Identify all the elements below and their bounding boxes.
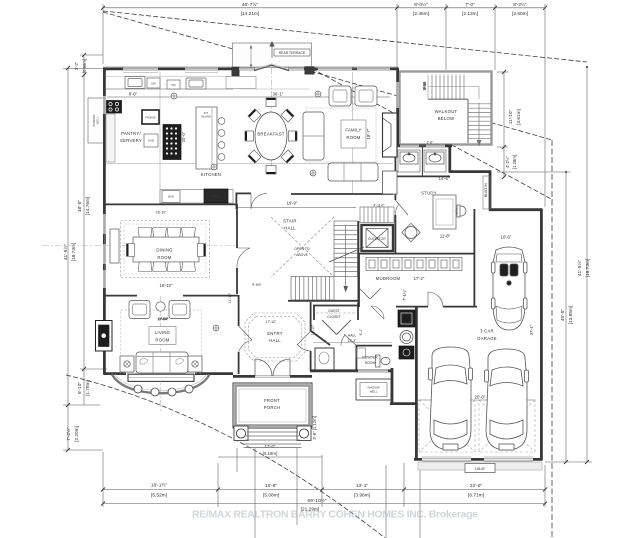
- dining chairs: [127, 228, 206, 272]
- LAYER: gray slabs: [88, 41, 542, 470]
- svg-text:KITCHEN: KITCHEN: [201, 172, 221, 177]
- svg-text:[3.98m]: [3.98m]: [354, 493, 370, 499]
- stair break line: [329, 247, 364, 262]
- svg-text:4'-11½": 4'-11½": [373, 204, 385, 208]
- svg-text:18'-10": 18'-10": [156, 211, 167, 215]
- svg-text:PANTRY/: PANTRY/: [121, 131, 141, 136]
- property line vertical right: [551, 140, 553, 538]
- svg-text:[3.61m]: [3.61m]: [516, 109, 522, 125]
- living side tables: [120, 356, 134, 372]
- study desk: [433, 195, 456, 229]
- sink 2: [186, 78, 206, 89]
- LAYER: dashed diagonals: [66, 11, 587, 538]
- svg-text:WALKOUT: WALKOUT: [435, 109, 458, 114]
- living armchair 2: [169, 301, 190, 319]
- svg-text:69'-10½": 69'-10½": [308, 497, 327, 504]
- svg-text:13'-1": 13'-1": [356, 483, 369, 489]
- guest closet walls: [313, 305, 359, 307]
- bath partition: [421, 146, 423, 176]
- kitchen south wall: [104, 203, 236, 205]
- mudroom double doors: [359, 288, 381, 299]
- svg-text:3 CAR: 3 CAR: [480, 329, 494, 334]
- svg-text:ROOM: ROOM: [155, 338, 169, 343]
- svg-text:8'-0": 8'-0": [129, 92, 138, 97]
- stair arrow: [345, 226, 347, 290]
- svg-text:[5.52m]: [5.52m]: [151, 493, 167, 499]
- guest closet doors: [322, 320, 351, 335]
- rear terrace slab: [233, 43, 312, 68]
- svg-text:WELL: WELL: [370, 390, 378, 394]
- living-entry wall upper: [238, 295, 240, 326]
- svg-text:STUDY: STUDY: [421, 191, 437, 196]
- svg-text:7'-1½": 7'-1½": [402, 289, 407, 301]
- right witness horizontals: [497, 171, 570, 173]
- exterior top wall: [103, 67, 255, 70]
- svg-text:[1.78m]: [1.78m]: [85, 380, 91, 396]
- svg-text:18'-7": 18'-7": [366, 128, 371, 139]
- dining tray ceiling dashed: [121, 221, 210, 278]
- kitchen top counter: [106, 88, 233, 90]
- left witness horizontals: [63, 68, 103, 70]
- svg-text:ENTRY: ENTRY: [267, 331, 283, 336]
- dining centerline: [42, 245, 236, 247]
- laundry appliances: [398, 310, 415, 327]
- svg-text:10'-6": 10'-6": [501, 235, 512, 240]
- svg-text:11'-8": 11'-8": [440, 234, 451, 239]
- svg-text:BUILT-IN: BUILT-IN: [484, 183, 488, 197]
- kitchen fridge 2: [204, 189, 228, 203]
- study chair: [456, 206, 466, 216]
- laundry south wall: [390, 402, 417, 405]
- dining east wall upper: [236, 204, 238, 248]
- angular plane line mid: [103, 12, 552, 140]
- kitchen bottom counter: [160, 190, 233, 204]
- hall dim line: [313, 342, 392, 344]
- notch vertical 1: [448, 145, 451, 173]
- elevator shaft walls: [362, 225, 394, 251]
- svg-text:FRONT: FRONT: [264, 398, 280, 403]
- terrace up arrow: [271, 45, 273, 58]
- svg-text:46'-7½": 46'-7½": [242, 1, 259, 8]
- svg-text:11'-10": 11'-10": [228, 292, 232, 303]
- svg-text:ELEVATOR: ELEVATOR: [368, 237, 386, 241]
- living-entry wall lower: [238, 352, 240, 374]
- bay window seat: [128, 374, 194, 381]
- dw 2: [167, 80, 180, 89]
- entry east wall upper: [310, 302, 312, 331]
- svg-text:4'-2½": 4'-2½": [505, 156, 510, 168]
- svg-text:8'-2½": 8'-2½": [513, 1, 527, 8]
- interior witness lines: [107, 45, 393, 204]
- svg-text:3'-8" [1.12m]: 3'-8" [1.12m]: [312, 416, 317, 439]
- porch columns: [234, 426, 311, 441]
- svg-text:FRIDGE: FRIDGE: [145, 116, 156, 120]
- breakfast bay angled wall: [254, 65, 289, 71]
- svg-text:BELOW: BELOW: [438, 116, 455, 121]
- left dim line x=84: [83, 55, 85, 405]
- electrical symbols: [171, 91, 321, 331]
- garage west wall upper: [473, 209, 475, 307]
- living sofa: [136, 352, 188, 373]
- entry north wall: [288, 300, 359, 302]
- svg-text:22'-0": 22'-0": [470, 483, 483, 489]
- front porch slab: [233, 383, 312, 428]
- svg-text:[1.28m]: [1.28m]: [512, 155, 517, 169]
- window well labels: [360, 383, 387, 397]
- angular plane line shallow: [103, 11, 587, 62]
- entry south wall: [233, 375, 312, 378]
- svg-text:7'-2½": 7'-2½": [65, 427, 72, 441]
- rear terrace label: [274, 49, 310, 56]
- right dim line x=566: [565, 172, 567, 462]
- svg-text:POWDER: POWDER: [362, 356, 378, 360]
- svg-text:2'-6": 2'-6": [427, 141, 435, 145]
- svg-text:9'-5½": 9'-5½": [252, 283, 262, 287]
- svg-text:17'-0": 17'-0": [265, 444, 276, 449]
- sports car: [492, 247, 528, 330]
- study north wall: [449, 170, 491, 173]
- svg-text:11'-10": 11'-10": [311, 324, 315, 335]
- svg-text:17'-10": 17'-10": [266, 320, 277, 324]
- front door leaves: [237, 193, 443, 376]
- mudroom lockers: [366, 258, 462, 271]
- living armchair 1: [129, 301, 150, 319]
- LAYER: walls: [103, 67, 542, 462]
- svg-text:HALL: HALL: [284, 226, 296, 231]
- svg-text:WELL: WELL: [96, 116, 100, 124]
- svg-text:RE/MAX REALTRON BARRY COHEN HO: RE/MAX REALTRON BARRY COHEN HOMES INC. B…: [192, 509, 478, 521]
- family side table: [352, 88, 355, 104]
- svg-text:DINING: DINING: [156, 248, 172, 253]
- living fireplace: [96, 321, 113, 352]
- breakfast chairs: [245, 98, 297, 174]
- garage apron: [418, 462, 542, 470]
- walkout interior walls gray: [428, 99, 468, 143]
- svg-text:ROOM: ROOM: [346, 135, 360, 140]
- left dim line x=68: [67, 68, 69, 450]
- living round table: [156, 302, 165, 311]
- mudroom west wall: [358, 253, 360, 307]
- svg-text:AUD: AUD: [148, 139, 154, 143]
- bottom dim line 1: [103, 489, 545, 491]
- study west wall upper: [394, 146, 396, 200]
- svg-text:LIVING: LIVING: [155, 330, 170, 335]
- powder north wall: [356, 345, 392, 347]
- svg-text:CLOSET: CLOSET: [327, 315, 341, 319]
- svg-text:ABOVE: ABOVE: [296, 253, 308, 257]
- svg-text:BVD: BVD: [168, 195, 174, 199]
- svg-text:FRIDGE: FRIDGE: [210, 195, 221, 199]
- stove: [107, 101, 122, 114]
- svg-text:36'-1": 36'-1": [273, 92, 284, 97]
- svg-text:158.6F: 158.6F: [475, 467, 486, 471]
- family room label: [341, 120, 366, 148]
- bath vanity 1: [398, 150, 420, 172]
- porch inner line: [239, 389, 306, 422]
- svg-text:SERVERY: SERVERY: [120, 138, 142, 143]
- svg-text:[2.13m]: [2.13m]: [462, 11, 478, 17]
- family room rug: [306, 108, 376, 162]
- svg-text:DW: DW: [151, 82, 156, 86]
- svg-text:14'-6": 14'-6": [439, 176, 450, 181]
- garage north wall: [489, 208, 542, 211]
- breakfast table: [255, 112, 287, 160]
- bath top wall below walkout: [396, 144, 452, 147]
- angular plane line steep: [287, 55, 553, 200]
- svg-text:17'-2": 17'-2": [414, 276, 425, 281]
- window center lines: [104, 69, 533, 462]
- door arc to mudroom hall: [371, 306, 384, 319]
- svg-text:MUDROOM: MUDROOM: [376, 276, 401, 281]
- family room east wall: [396, 68, 399, 147]
- top dimension line: [103, 7, 545, 9]
- hall closet walls: [315, 348, 334, 370]
- top wall hairline: [103, 66, 398, 68]
- svg-text:5'-10": 5'-10": [77, 382, 83, 395]
- dining east wall lower: [236, 268, 238, 294]
- cooktop counter right: [226, 77, 256, 89]
- dining table: [133, 237, 199, 262]
- svg-text:[0.96m]: [0.96m]: [82, 59, 87, 73]
- svg-text:BREAKFAST: BREAKFAST: [257, 132, 284, 137]
- svg-text:41'-5½": 41'-5½": [62, 244, 69, 261]
- svg-text:ROOM: ROOM: [365, 361, 376, 365]
- living bay base curve: [112, 375, 210, 394]
- svg-text:OPEN TO: OPEN TO: [294, 247, 309, 251]
- svg-text:[2.45m]: [2.45m]: [413, 11, 429, 17]
- svg-text:DW: DW: [171, 83, 176, 87]
- study round table: [402, 223, 420, 241]
- walkout stair arrow: [477, 140, 482, 147]
- svg-text:GUEST: GUEST: [328, 309, 340, 313]
- window well east wall: [391, 368, 394, 405]
- entry east wall lower: [310, 351, 312, 371]
- hall diagonal walls: [311, 331, 330, 345]
- open to above X: [271, 217, 334, 277]
- living room label: [149, 327, 176, 345]
- family fireplace: [383, 113, 398, 157]
- porch steps: [244, 432, 302, 448]
- entry octagon dashed: [245, 313, 305, 361]
- svg-text:37'-1": 37'-1": [529, 324, 534, 335]
- dining-living wall left: [104, 295, 137, 297]
- svg-text:20'-0": 20'-0": [475, 395, 486, 400]
- powder sink: [357, 348, 366, 358]
- svg-text:7'-0": 7'-0": [465, 2, 475, 8]
- svg-text:HALL: HALL: [348, 334, 357, 338]
- svg-text:20'-0": 20'-0": [181, 131, 186, 142]
- stair hall east wall: [357, 221, 359, 303]
- LAYER: dim texts: [62, 1, 591, 513]
- living bay south wall: [104, 372, 127, 375]
- bay columns: [134, 385, 193, 396]
- svg-text:STAIR: STAIR: [283, 219, 296, 224]
- svg-text:[14.21m]: [14.21m]: [241, 11, 260, 17]
- walkout floor: [400, 72, 492, 145]
- kitchen island: [196, 107, 217, 169]
- sink 1: [125, 77, 145, 89]
- svg-text:[13.85m]: [13.85m]: [568, 306, 574, 325]
- svg-text:GARAGE: GARAGE: [477, 336, 497, 341]
- terrace piers: [232, 67, 240, 77]
- interior door arcs: [251, 193, 267, 209]
- family sofa bottom: [328, 163, 378, 181]
- interior dim line kitchen y=97: [107, 96, 390, 98]
- family armchair 1: [329, 86, 351, 106]
- svg-text:[14.76m]: [14.76m]: [85, 197, 91, 216]
- basement dn stairs: [360, 207, 394, 223]
- family armchair 2: [355, 86, 377, 106]
- powder west wall: [355, 345, 357, 371]
- built-in shelf: [483, 176, 490, 209]
- svg-text:41'-5½": 41'-5½": [576, 260, 583, 277]
- svg-text:17'-6½": 17'-6½": [158, 317, 168, 321]
- garage 20-0 dim: [418, 399, 535, 401]
- dining window seat: [110, 229, 119, 263]
- svg-text:REAR TERRACE: REAR TERRACE: [279, 51, 306, 55]
- svg-text:11'-10": 11'-10": [508, 109, 514, 124]
- svg-text:ROOM: ROOM: [157, 255, 171, 260]
- mudroom north wall: [358, 253, 474, 255]
- svg-text:[18.73m]: [18.73m]: [585, 259, 591, 278]
- garage west wall: [415, 306, 418, 460]
- svg-text:3'-2": 3'-2": [74, 61, 79, 70]
- garage 158.6F box: [465, 464, 495, 473]
- pantry west counter: [106, 114, 115, 162]
- family chaise left: [303, 112, 324, 160]
- svg-text:8'-0½": 8'-0½": [414, 1, 428, 8]
- LAYER: watermark: [192, 509, 478, 521]
- garage parking stalls dashed: [419, 400, 535, 452]
- svg-text:18'-10": 18'-10": [160, 283, 174, 288]
- svg-text:HALL: HALL: [269, 338, 281, 343]
- mudroom south wall right: [443, 306, 477, 308]
- living centerline: [160, 296, 162, 413]
- svg-text:[2.20m]: [2.20m]: [74, 426, 80, 442]
- lower flight: [291, 277, 334, 301]
- bath vanity 2: [424, 150, 446, 172]
- bath south wall: [396, 175, 450, 177]
- pantry fridge: [142, 110, 159, 124]
- main staircase: [291, 221, 364, 300]
- interior dim line stairhall y=207: [236, 207, 356, 209]
- elevator car: [366, 229, 388, 248]
- svg-text:12'-3": 12'-3": [348, 339, 357, 343]
- svg-text:[2.50m]: [2.50m]: [512, 11, 528, 17]
- porch dim line: [218, 456, 322, 458]
- suv 2: [485, 349, 529, 450]
- walkout stairs upper run: [432, 75, 491, 142]
- window well left: [88, 98, 104, 143]
- walkout right dims x=504: [503, 72, 505, 177]
- svg-text:PORCH: PORCH: [264, 405, 281, 410]
- svg-text:18'-1½": 18'-1½": [151, 482, 168, 489]
- mudroom south wall left: [396, 306, 428, 308]
- svg-text:19'-9": 19'-9": [287, 201, 298, 206]
- svg-text:6'-1": 6'-1": [359, 328, 363, 336]
- notch vertical 2: [489, 171, 492, 211]
- suv 1: [429, 347, 473, 450]
- guest closet rod: [316, 312, 357, 314]
- svg-text:FAMILY: FAMILY: [345, 128, 361, 133]
- powder toilet: [376, 355, 391, 367]
- garage south wall: [414, 458, 542, 461]
- terrace dim arrows: [250, 45, 252, 69]
- bottom dim line 2: [103, 503, 545, 505]
- living rug dashed: [121, 310, 202, 373]
- window well south: [356, 379, 391, 400]
- LAYER: furniture: [42, 73, 535, 473]
- short wall to stair opening: [236, 192, 251, 194]
- svg-text:[6.71m]: [6.71m]: [468, 493, 484, 499]
- exterior left wall: [103, 68, 106, 375]
- bottom witness verticals: [102, 452, 104, 507]
- LAYER: labels: [92, 49, 534, 471]
- island stools: [218, 118, 225, 125]
- jog at dining corner: [235, 193, 237, 210]
- garage east wall: [540, 209, 543, 461]
- svg-text:[5.08m]: [5.08m]: [263, 493, 279, 499]
- dining-living wall right: [183, 295, 238, 297]
- svg-text:[5.18m]: [5.18m]: [263, 451, 277, 456]
- svg-text:16'-8": 16'-8": [265, 483, 278, 489]
- windows: light band over walls: [104, 69, 533, 460]
- svg-text:ISLAND: ISLAND: [201, 115, 211, 119]
- top dim ticks: [101, 6, 547, 10]
- closet sink cabinet: [319, 352, 329, 364]
- right dim line x=587: [586, 67, 588, 462]
- svg-text:48'-5": 48'-5": [77, 200, 83, 213]
- svg-text:UP 18R: UP 18R: [425, 82, 427, 90]
- svg-text:45'-5": 45'-5": [560, 309, 566, 322]
- family south wall: [291, 193, 393, 195]
- study west wall lower: [394, 215, 396, 253]
- dw 1: [147, 78, 160, 88]
- curved setback line bottom: [66, 375, 385, 538]
- pantry cabinet dark: [163, 125, 181, 160]
- powder south wall: [310, 369, 393, 372]
- pantry aud box: [144, 134, 158, 147]
- top witness verticals: [102, 4, 104, 64]
